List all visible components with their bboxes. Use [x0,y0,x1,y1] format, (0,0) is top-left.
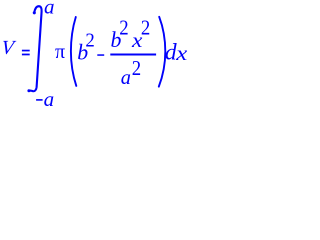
integral sign [29,6,42,91]
svg-text:a: a [121,65,131,89]
right parenthesis [159,17,166,87]
left parenthesis [71,17,76,86]
minus [97,54,104,56]
svg-text:a: a [44,87,55,110]
svg-text:2: 2 [141,16,150,40]
svg-text:π: π [55,41,65,63]
math formula: V = int_{-a}^{a} pi*(b^2 - b^2 x^2 / a^2) dx [0,0,190,110]
svg-text:2: 2 [85,30,94,52]
fraction bar [110,54,156,56]
svg-text:2: 2 [119,15,128,39]
svg-text:a: a [44,0,55,18]
svg-text:d: d [165,40,177,66]
svg-text:x: x [175,43,187,65]
lower limit minus [36,99,43,101]
equals sign [22,50,30,52]
svg-text:2: 2 [132,56,141,80]
